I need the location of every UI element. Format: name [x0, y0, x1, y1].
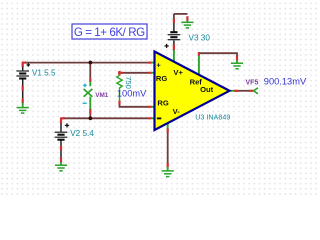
svg-text:+: + — [156, 61, 161, 70]
svg-text:Out: Out — [200, 85, 214, 94]
svg-text:900.13mV: 900.13mV — [264, 77, 307, 87]
svg-text:U3 INA849: U3 INA849 — [195, 113, 230, 122]
svg-text:RG: RG — [156, 74, 167, 83]
svg-text:VM1: VM1 — [95, 92, 109, 99]
svg-text:V+: V+ — [173, 68, 183, 77]
svg-text:V-: V- — [173, 107, 181, 116]
svg-text:G = 1+ 6K/ RG: G = 1+ 6K/ RG — [74, 26, 145, 39]
svg-text:V1 5.5: V1 5.5 — [32, 69, 56, 78]
svg-text:VF5: VF5 — [246, 79, 259, 86]
svg-text:V3 30: V3 30 — [189, 33, 211, 42]
svg-text:100mV: 100mV — [117, 89, 147, 99]
svg-text:RG: RG — [157, 99, 168, 108]
svg-text:750: 750 — [124, 76, 133, 89]
svg-text:V2 5.4: V2 5.4 — [70, 129, 94, 138]
